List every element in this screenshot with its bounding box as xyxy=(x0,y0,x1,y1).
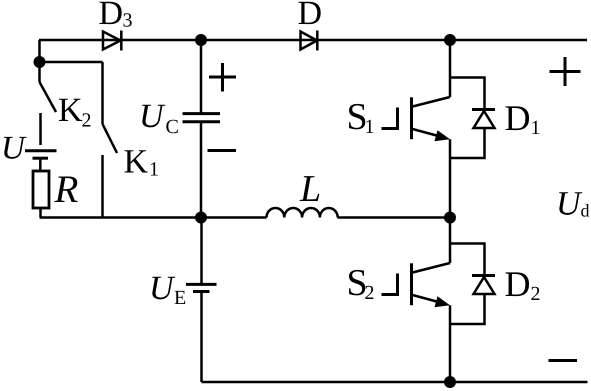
wire S2 emitter lead xyxy=(449,305,452,382)
svg-text:2: 2 xyxy=(82,110,92,132)
minus sign at capacitor xyxy=(208,149,237,152)
svg-text:K: K xyxy=(58,92,83,129)
wire mid rail right xyxy=(338,216,451,219)
svg-text:D: D xyxy=(99,0,124,32)
svg-text:D: D xyxy=(298,0,323,32)
transistor S1 (IGBT) xyxy=(382,97,451,141)
inductor L xyxy=(267,208,338,218)
node B (top junction at capacitor branch) xyxy=(195,34,207,46)
diode D2 xyxy=(472,276,495,295)
wire D1 loop top xyxy=(450,78,485,110)
svg-text:D: D xyxy=(505,98,531,138)
wire D2 loop top xyxy=(450,244,485,276)
node F (mid junction at S branch) xyxy=(444,212,456,224)
wire node A to K1 branch xyxy=(40,61,103,64)
switch K1 xyxy=(103,62,118,217)
svg-text:D: D xyxy=(505,264,531,304)
wire UE bottom lead xyxy=(200,292,203,383)
svg-text:U: U xyxy=(1,131,27,167)
svg-text:2: 2 xyxy=(531,283,541,305)
svg-text:d: d xyxy=(581,201,590,221)
minus sign at output xyxy=(549,359,578,362)
svg-text:E: E xyxy=(174,287,186,309)
svg-text:1: 1 xyxy=(149,159,159,181)
svg-text:2: 2 xyxy=(365,282,375,304)
svg-text:3: 3 xyxy=(123,10,133,32)
wire capacitor top lead xyxy=(200,40,203,114)
capacitor UC xyxy=(183,114,221,218)
svg-text:C: C xyxy=(166,116,179,138)
wire S1 emitter lead xyxy=(449,139,452,217)
svg-text:K: K xyxy=(124,144,149,181)
wire mid rail left xyxy=(40,216,267,219)
wire top rail xyxy=(39,39,587,42)
wire D1 loop bottom xyxy=(450,128,485,158)
node E (bottom junction) xyxy=(444,376,456,388)
svg-text:U: U xyxy=(139,98,166,135)
node C (mid junction) xyxy=(195,212,207,224)
switch K2 xyxy=(40,62,57,145)
node D (top junction at S1 branch) xyxy=(444,34,456,46)
wire D2 loop bottom xyxy=(450,294,485,324)
plus sign at capacitor xyxy=(209,63,236,92)
transistor S2 (IGBT) xyxy=(382,263,451,307)
wire S1 collector lead xyxy=(449,40,452,97)
wire S2 collector lead xyxy=(449,218,452,264)
svg-text:L: L xyxy=(299,168,321,210)
svg-text:1: 1 xyxy=(365,116,375,138)
resistor R xyxy=(33,171,49,217)
svg-text:1: 1 xyxy=(531,117,541,139)
svg-text:U: U xyxy=(149,270,176,307)
svg-text:R: R xyxy=(54,168,79,211)
node A (left junction) xyxy=(34,56,46,68)
plus sign at output xyxy=(550,57,581,86)
wire left drop from top rail xyxy=(38,40,41,62)
diode D xyxy=(301,31,318,51)
battery UE xyxy=(186,284,217,291)
svg-text:U: U xyxy=(556,186,583,223)
wire bottom rail xyxy=(202,381,588,384)
diode D1 xyxy=(472,110,495,129)
diode D3 xyxy=(103,31,121,51)
battery U xyxy=(25,151,57,171)
wire UE top lead xyxy=(200,218,203,285)
